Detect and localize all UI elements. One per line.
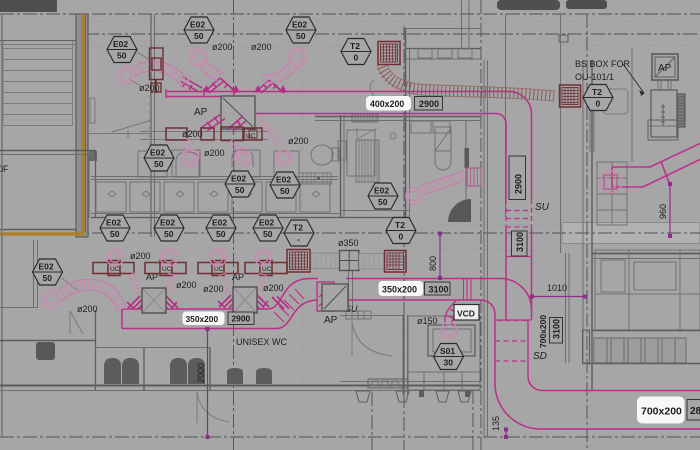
svg-text:30: 30: [444, 358, 454, 368]
UC box row dark red: [93, 261, 287, 276]
svg-text:700x200: 700x200: [641, 406, 682, 418]
svg-text:UC: UC: [262, 266, 272, 273]
purple dimension 2000: [206, 327, 210, 439]
svg-text:AP: AP: [194, 107, 208, 118]
bottom-left room walls: [0, 340, 95, 342]
flex hatch left of AP top: [204, 89, 234, 97]
hexagon tag T2/- H14: [284, 220, 314, 246]
wall x565 pair right: [565, 253, 567, 363]
elevation box 3100 vertical top: [512, 231, 528, 256]
svg-text:ø200: ø200: [182, 129, 203, 139]
svg-text:E02: E02: [212, 218, 227, 228]
damper row lines: [140, 131, 268, 133]
hexagon tag E02/50 H1: [107, 37, 137, 63]
supply duct left stub: [166, 96, 221, 98]
supply duct 400x200 top edge: [166, 92, 532, 200]
light dashed horizontal y46: [85, 45, 345, 47]
transition ticks: [464, 279, 472, 301]
svg-text:50: 50: [263, 229, 273, 239]
svg-text:ø200: ø200: [212, 42, 233, 52]
hexagon tag T2/0 H5: [583, 85, 613, 111]
arch fixtures row mid: [176, 152, 199, 177]
stairs top-left: [0, 40, 97, 230]
main extract duct bottom-left top edge: [268, 279, 318, 310]
svg-text:UC: UC: [214, 266, 224, 273]
svg-text:SU: SU: [535, 202, 550, 213]
svg-text:135: 135: [491, 416, 501, 431]
dark fixture blob: [36, 342, 55, 360]
svg-text:E02: E02: [374, 186, 389, 196]
AHU unit top right: [651, 90, 677, 137]
svg-text:E02: E02: [190, 20, 205, 30]
wall x505: [505, 14, 507, 218]
svg-text:S01: S01: [440, 346, 455, 356]
svg-text:3100: 3100: [429, 285, 449, 295]
corridor band right fill: [562, 223, 700, 244]
striped cabinet mid: [299, 173, 331, 184]
door leaf mid-left: [85, 120, 152, 138]
svg-text:E02: E02: [259, 218, 274, 228]
damper boxes dark red: [166, 127, 262, 141]
kitchen counter unit: [408, 316, 480, 390]
counter base lines: [91, 213, 340, 215]
kitchen counter bottom center: [340, 315, 404, 317]
AP box top right outer: [652, 54, 678, 80]
svg-text:E02: E02: [276, 175, 291, 185]
svg-text:960: 960: [658, 204, 668, 219]
hexagon tag E02/50 H10: [100, 215, 130, 241]
supply duct 400x200 bottom edge: [255, 114, 506, 200]
elevation box 2900: [415, 97, 443, 111]
light dashed horizontal y21: [85, 20, 700, 22]
ø labels: [77, 42, 438, 326]
svg-text:ø200: ø200: [176, 280, 197, 290]
branch wye hatch 1 (x204-237): [204, 78, 239, 93]
joint line y320: [495, 319, 532, 321]
flex to diffuser D1: [186, 140, 190, 153]
AP unit top (fan coil): [221, 96, 255, 129]
right lower room walls: [592, 253, 700, 255]
svg-text:AP: AP: [658, 63, 672, 74]
svg-text:50: 50: [154, 159, 164, 169]
svg-text:ø200: ø200: [263, 283, 284, 293]
svg-text:50: 50: [110, 229, 120, 239]
vert pair below T2 hexagon right: [589, 111, 591, 152]
svg-text:T2: T2: [350, 41, 360, 51]
right duct to outside: [612, 144, 700, 188]
svg-text:ø350: ø350: [338, 238, 359, 248]
top right room fixtures: [418, 49, 432, 58]
shower box: [347, 130, 375, 176]
svg-text:50: 50: [296, 31, 306, 41]
grid dash-dot vertical x404: [403, 26, 405, 450]
grille G3 (dark red grid): [385, 251, 407, 273]
svg-text:BS BOX FOR: BS BOX FOR: [575, 59, 631, 69]
bottom elbow inner: [528, 377, 700, 391]
sinks: [227, 368, 243, 384]
svg-text:50: 50: [117, 51, 127, 61]
small square top-right: [559, 35, 568, 42]
SD duct dashed sections: [495, 321, 528, 362]
ladder fixture below fan: [346, 311, 371, 319]
toilet oval: [311, 145, 333, 165]
svg-text:50: 50: [378, 197, 388, 207]
svg-text:T2: T2: [395, 220, 405, 230]
fan box ø350: [340, 251, 360, 271]
grid dash-dot vertical x233.5: [233, 0, 235, 450]
left outer wall: [1, 14, 3, 437]
svg-text:UC: UC: [246, 133, 256, 140]
wall y150 left: [0, 150, 95, 152]
diffuser circle B: [189, 48, 207, 66]
purple dimension 800: [438, 232, 442, 281]
svg-text:50: 50: [280, 186, 290, 196]
VAV device dark red top-left: [150, 48, 164, 93]
wall column left: [76, 14, 88, 237]
wc partitions: [143, 347, 145, 390]
duct dashed crossing segment: [506, 199, 532, 229]
hexagon tag E02/50 H8: [270, 172, 300, 198]
diffuser circle A: [117, 66, 135, 84]
grid dash-dot horizontal y14: [0, 13, 700, 15]
hexagon tag T2/0 H15: [386, 218, 416, 244]
equipment hatched row bottom right: [594, 338, 686, 363]
sink double rect: [428, 325, 475, 356]
svg-text:0: 0: [596, 99, 601, 109]
long corrugated flex G1 to G4: [382, 67, 554, 96]
duct joint line y256: [506, 256, 532, 258]
elevation box 2900 vertical: [509, 156, 526, 200]
wall x89 lower: [88, 155, 90, 218]
svg-text:E02: E02: [39, 262, 54, 272]
diffuser circle D1: [182, 150, 199, 167]
svg-text:E02: E02: [292, 20, 307, 30]
hexagon tag E02/50 H13: [253, 215, 283, 241]
corrugated flex G2-fan: [311, 253, 339, 268]
svg-text:E02: E02: [160, 218, 175, 228]
svg-text:ø200: ø200: [288, 136, 309, 146]
grid dash-dot vertical x587: [586, 14, 588, 450]
svg-text:2900: 2900: [419, 99, 439, 109]
callout 400x200 white: [366, 96, 411, 111]
right duct grille: [604, 175, 617, 189]
grid dash-dot horizontal y34: [85, 33, 700, 35]
hexagon tag E02/50 H6: [144, 145, 174, 171]
svg-text:OU-101/1: OU-101/1: [575, 72, 614, 82]
light dashed horizontal y45 right: [560, 44, 700, 46]
AP unit 1: [142, 288, 166, 313]
purple dimension 1010: [530, 295, 587, 299]
hexagon tag E02/50 H16: [33, 259, 63, 285]
diffuser circle C: [289, 48, 307, 66]
svg-text:ø150: ø150: [417, 316, 438, 326]
svg-text:UC: UC: [162, 266, 172, 273]
duct end cap: [121, 309, 123, 329]
svg-text:0: 0: [399, 232, 404, 242]
svg-text:UC: UC: [110, 266, 120, 273]
svg-text:2900: 2900: [514, 174, 524, 194]
door swing small: [357, 128, 377, 139]
hatched flex AP to damper row left: [201, 114, 246, 132]
svg-text:50: 50: [235, 185, 245, 195]
dark block top-mid-right: [497, 0, 560, 10]
wall x340 double: [340, 115, 342, 217]
wall x403 kitchen: [403, 315, 405, 395]
left inlet hatch (x183-204): [180, 77, 202, 92]
diffuser flex top C: [263, 64, 294, 79]
corrugated flex duct to diffuser D3: [260, 117, 279, 145]
svg-text:E02: E02: [231, 174, 246, 184]
S01 diffuser circle: [441, 322, 457, 338]
shower column fixture: [435, 127, 451, 170]
mid-right corrugated flex: [420, 175, 464, 190]
hex leader lines: [137, 52, 150, 60]
wall x583 x592 right double: [582, 60, 584, 363]
svg-text:28: 28: [690, 406, 700, 417]
tall cabinet with grid right: [597, 162, 627, 225]
grid dash-dot horizontal y437: [0, 436, 700, 438]
callout 350x200 white mid: [379, 281, 424, 296]
svg-text:400x200: 400x200: [370, 99, 404, 109]
svg-text:800: 800: [428, 256, 438, 271]
wall door rect: [338, 141, 346, 160]
purple dimension 960: [668, 182, 672, 238]
callout 350x200 white left: [183, 312, 225, 326]
grille G4 top right: [560, 85, 581, 107]
svg-text:0: 0: [354, 53, 359, 63]
svg-text:50: 50: [43, 273, 53, 283]
hexagon tag E02/50 H2: [184, 17, 214, 43]
UC branch flex hatches: [127, 295, 289, 310]
svg-text:3100: 3100: [552, 319, 562, 339]
hexagon tag T2/0 H4: [341, 39, 371, 65]
orange wall line bottom horizontal: [0, 232, 84, 235]
grid dash-dot horizontal y233: [0, 232, 700, 234]
svg-text:VCD: VCD: [457, 309, 475, 319]
left inlet diffuser circle: [43, 291, 60, 308]
svg-text:AP: AP: [324, 315, 338, 326]
grille G1 top (dark red grid): [378, 42, 400, 65]
upper cabinets with basins: [138, 151, 167, 177]
cabinet row: [96, 182, 330, 212]
main extract duct bottom-left bottom edge: [122, 300, 318, 329]
diffuser circle D2: [235, 149, 252, 166]
svg-text:ø200: ø200: [139, 83, 160, 93]
rounded rect behind T2 hexagon right: [603, 89, 628, 114]
toilets: [104, 358, 272, 384]
S01 branch flex hatch: [445, 301, 463, 324]
diffuser flex top A (corrugated): [134, 66, 187, 86]
corrugated flex fan-G3: [359, 254, 385, 269]
door leaf bottom-left: [70, 311, 83, 334]
svg-text:E02: E02: [106, 218, 121, 228]
hexagon tag E02/50 H3: [286, 17, 316, 43]
grid dash-dot vertical x481: [480, 0, 482, 450]
svg-text:ø200: ø200: [203, 284, 224, 294]
grille G2 (dark red grid): [287, 250, 310, 273]
right duct diffuser circle: [600, 171, 622, 193]
dark block top-left: [0, 0, 57, 12]
svg-text:50: 50: [216, 229, 226, 239]
svg-text:2000: 2000: [196, 363, 206, 383]
svg-text:1010: 1010: [547, 283, 567, 293]
wall x560: [560, 14, 562, 253]
diffuser circle D3: [276, 150, 292, 166]
riser hatch ticks: [274, 289, 304, 322]
svg-text:2900: 2900: [232, 314, 251, 324]
SD duct right edge: [527, 320, 529, 377]
svg-text:T2: T2: [293, 223, 303, 233]
dark block top-right: [566, 0, 607, 9]
extract duct 350x200 right bottom edge: [346, 300, 495, 384]
hexagon tag E02/50 H12: [206, 215, 236, 241]
wall x95: [95, 150, 97, 218]
radiator striped: [356, 140, 379, 182]
bottom main wall: [0, 385, 481, 387]
bottom elbow outer: [495, 384, 700, 430]
purple dimension 135: [504, 428, 508, 440]
VCD box: [454, 305, 479, 321]
svg-text:UNISEX WC: UNISEX WC: [236, 337, 288, 347]
light dashed band edges mid: [440, 224, 562, 226]
flex to diffuser D2: [230, 141, 243, 152]
small grille mid-right: [467, 168, 481, 186]
wall y48 top right: [406, 48, 481, 50]
wall y119: [315, 116, 481, 118]
wall x151 double: [150, 14, 152, 237]
left inlet flex corrugated bottom: [59, 284, 122, 310]
AP unit 2: [233, 287, 257, 313]
svg-text:-: -: [297, 234, 300, 244]
flex hatch square before AP3: [317, 282, 334, 311]
svg-text:350x200: 350x200: [382, 285, 417, 295]
svg-text:SD: SD: [533, 351, 547, 362]
svg-text:0F: 0F: [0, 164, 9, 174]
coffee machine top right: [648, 120, 678, 140]
svg-text:ø200: ø200: [251, 42, 272, 52]
mid-right diffuser circle: [406, 188, 422, 204]
hexagon tag E02/50 H9: [368, 183, 398, 209]
diffuser flex top B: [202, 64, 221, 77]
wall x461 x469 top: [461, 0, 463, 48]
svg-text:T2: T2: [592, 87, 602, 97]
duct vertical solid below crossing: [505, 229, 507, 320]
svg-text:350x200: 350x200: [186, 314, 219, 324]
wall x405 double: [405, 28, 407, 218]
hexagon tag E02/50 H7: [225, 171, 255, 197]
svg-text:3100: 3100: [515, 232, 525, 252]
orange wall line vertical: [81, 14, 84, 233]
elevation box 3100 mid: [425, 282, 451, 295]
counter top lines: [91, 176, 338, 178]
extract duct 350x200 right top edge: [346, 279, 532, 310]
svg-text:ø200: ø200: [77, 304, 98, 314]
UC diffuser circles: [107, 249, 272, 266]
hexagon tag S01/30 H17: [434, 344, 464, 370]
wall x484 double: [483, 60, 485, 437]
AP unit 3 (inline fan): [322, 284, 348, 311]
BS BOX leader: [623, 64, 644, 95]
elevation box 2900 left: [228, 312, 254, 325]
svg-text:50: 50: [194, 31, 204, 41]
hexagon tag E02/50 H11: [154, 215, 184, 241]
door arc kitchen: [352, 321, 392, 356]
leader arc for 400x200 callout: [370, 80, 374, 96]
svg-text:50: 50: [164, 229, 174, 239]
svg-text:E02: E02: [113, 39, 128, 49]
light dashed vertical x302: [301, 14, 303, 388]
dark shower quarter disc: [448, 199, 471, 222]
svg-text:ø200: ø200: [130, 251, 151, 261]
callout 700x200 big white: [637, 397, 685, 424]
big fridges right: [595, 250, 700, 330]
branch wye hatch 2 (x256-284): [256, 80, 286, 93]
door arc unisex wc: [197, 391, 229, 423]
counter legs: [419, 390, 424, 397]
wall y210: [340, 210, 410, 212]
elevation box 28xx clipped: [687, 400, 700, 421]
elevation box 3100 vertical bottom: [550, 318, 563, 344]
svg-text:E02: E02: [150, 148, 165, 158]
svg-text:ø200: ø200: [204, 148, 225, 158]
svg-text:700x200: 700x200: [538, 315, 548, 348]
